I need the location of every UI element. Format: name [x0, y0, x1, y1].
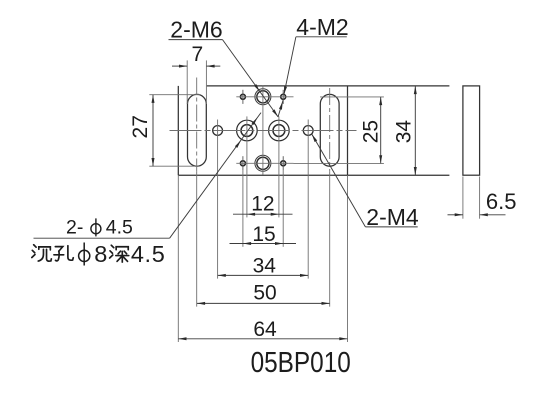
ext line M2 right column (dim 15) [282, 170, 284, 246]
arrow dim27 bottom [152, 158, 155, 166]
svg-text:2-: 2- [66, 216, 83, 238]
left slot (stadium) [188, 94, 207, 166]
leader 2-M6 diagonal through M6 hole [223, 40, 279, 117]
ext line plate left edge (dim 64) [177, 175, 179, 342]
dim line 34 bottom [218, 274, 309, 276]
leader 2-M6 underline [169, 39, 223, 41]
M2 hole bottom-left [240, 161, 245, 166]
plate left edge [177, 86, 179, 175]
svg-text:6.5: 6.5 [486, 189, 517, 214]
M4 hole left [213, 126, 223, 136]
M2 hole top-right [281, 94, 286, 99]
M2 bottom-left cross vertical [242, 156, 244, 170]
ext line slot left center (dim 50) [196, 171, 198, 306]
text label counterbore note: phi8 depth 4.5 (CJK drawn as paths) [32, 241, 166, 267]
leader 4-M2 diagonal [284, 37, 296, 95]
arrow dim6.5 left [455, 213, 463, 216]
svg-text:2-M6: 2-M6 [170, 16, 222, 42]
M6 hole bottom: thread circle [255, 155, 271, 171]
arrow dim25 bottom [379, 155, 382, 163]
counterbore hole right: counterbore circle [269, 120, 290, 141]
M6/M2 top row center line [236, 96, 293, 98]
arrow dim64 right [339, 337, 347, 340]
arrow dim64 left [178, 337, 186, 340]
CJK char chen (sink) [32, 245, 52, 261]
M2 top-left cross vertical [242, 90, 244, 104]
svg-text:64: 64 [253, 318, 277, 341]
ext line slot right edge (dim 7) [205, 60, 207, 104]
svg-text:2-M4: 2-M4 [366, 204, 419, 230]
CJK char shen (deep) [110, 245, 129, 262]
M4 hole right [303, 126, 313, 136]
svg-text:05BP010: 05BP010 [251, 347, 351, 379]
horizontal main center line [170, 130, 357, 132]
M6 hole bottom: bore circle [257, 157, 269, 169]
leader 2-M4 underline [365, 226, 417, 228]
side view plate rectangle [463, 86, 480, 175]
M2 hole top-left [240, 94, 245, 99]
phi symbol line 1 [91, 218, 101, 236]
arrow dim12 left [247, 213, 255, 216]
left slot center line [196, 78, 198, 172]
dim line 27 [152, 95, 154, 167]
arrow dim15 right [275, 242, 283, 245]
dim line 7 [172, 65, 187, 67]
ext line counterbore right column (dim 12) [278, 116, 280, 217]
ext line M2 left column (dim 15) [242, 170, 244, 246]
svg-text:25: 25 [359, 120, 382, 143]
counterbore hole left: counterbore circle [237, 120, 258, 141]
phi symbol line 2 [79, 243, 90, 266]
plate right edge [347, 86, 349, 175]
svg-text:7: 7 [191, 43, 203, 66]
vertical center line M6 column [262, 86, 264, 175]
right slot center line [329, 88, 331, 171]
ext line slot right center (dim 50) [329, 171, 331, 306]
arrow dim15 left [243, 242, 251, 245]
ext line counterbore left column (dim 12) [246, 116, 248, 217]
arrow leader cbore at hole [235, 140, 241, 148]
ext line side view left edge (dim 6.5) [462, 177, 464, 219]
leader branch up to M2 hole [278, 99, 283, 117]
plate bottom edge (runs into 34-dim extension) [178, 174, 449, 176]
svg-text:4.5: 4.5 [131, 241, 165, 267]
ext line slot bottom (dim 27) [149, 165, 200, 167]
svg-text:12: 12 [251, 192, 274, 215]
arrow leader 2-M6 at hole [254, 84, 260, 92]
arrow dim50 left [197, 302, 205, 305]
arrow dim50 right [322, 302, 330, 305]
M2 hole bottom-right [281, 161, 286, 166]
counterbore hole right: phi4.5 bore [273, 125, 285, 137]
ext line side view right edge (dim 6.5) [479, 177, 481, 219]
ext line slot left edge (dim 7) [186, 60, 188, 104]
text label 2-phi4.5 [66, 216, 133, 238]
leader 2-phi4.5 underline [34, 237, 170, 239]
arrow dim34r top [414, 86, 417, 94]
dim line 34 right [414, 86, 416, 175]
dim line 15 [230, 243, 297, 245]
arrow dim34b left [218, 274, 226, 277]
arrow leader to M2 lower [279, 101, 283, 109]
right slot (stadium) [320, 94, 339, 166]
arrow leader 2-M6 end [272, 109, 278, 117]
dim line 25 [380, 97, 382, 163]
arrow leader 4-M2 [284, 86, 287, 94]
leader 2-M4 diagonal [312, 134, 366, 227]
leader 2-phi4.5 diagonal through counterbore hole [170, 113, 261, 239]
svg-text:34: 34 [253, 254, 277, 277]
arrow dim25 top [379, 97, 382, 105]
ext line M4 left column (dim 34) [217, 120, 219, 279]
ext line slot top (dim 27) [149, 94, 200, 96]
ext line bottom row right (dim 25) [294, 162, 384, 164]
ext line top row right (dim 25) [320, 96, 384, 98]
M6 hole top: thread circle [255, 89, 271, 105]
ext line plate right edge (dim 64) [347, 175, 349, 342]
plate top edge (starts right of left slot, runs into 34-dim extension) [207, 85, 450, 87]
svg-text:15: 15 [252, 223, 275, 246]
counterbore hole left: phi4.5 bore [241, 125, 253, 137]
M2 bottom-right cross vertical [282, 156, 284, 170]
M2 top-right cross vertical [282, 90, 284, 104]
svg-text:27: 27 [129, 115, 152, 138]
arrow dim12 right [271, 213, 279, 216]
svg-text:34: 34 [393, 120, 416, 144]
dim line 50 [197, 302, 330, 304]
arrow dim7 left [179, 65, 187, 68]
ext line M4 right column (dim 34) [307, 120, 309, 279]
dim line 6.5 [448, 214, 463, 216]
svg-text:4.5: 4.5 [106, 216, 133, 238]
arrow dim7 right [206, 65, 214, 68]
svg-text:50: 50 [253, 282, 276, 305]
arrow dim34r bottom [414, 167, 417, 175]
arrow leader 2-M4 [312, 134, 317, 142]
leader 4-M2 underline [296, 36, 347, 38]
svg-text:4-M2: 4-M2 [296, 14, 348, 40]
arrow dim34b right [300, 274, 308, 277]
M6/M2 bottom row center line [236, 162, 293, 164]
dim line 12 [233, 213, 293, 215]
M6 hole top: bore circle [257, 91, 269, 103]
svg-text:8: 8 [94, 241, 107, 267]
dim line 64 [178, 338, 347, 340]
arrow dim6.5 right [480, 213, 488, 216]
arrow leader cbore second [252, 117, 258, 125]
arrow dim27 top [152, 95, 155, 103]
CJK char kong (hole) [54, 246, 73, 261]
